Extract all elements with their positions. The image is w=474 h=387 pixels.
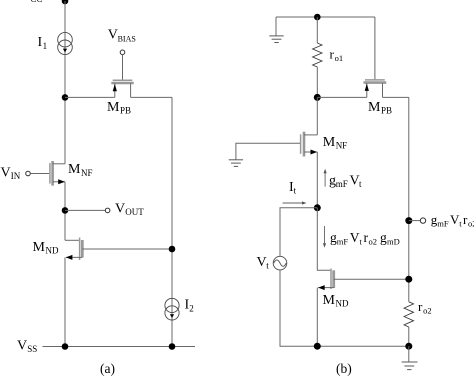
label ro2 (418, 299, 432, 316)
svg-text:ND: ND (336, 299, 349, 309)
nmos MND gate bar (79, 238, 81, 261)
pmos MPB source arrow (113, 84, 117, 91)
svg-text:M: M (323, 293, 336, 308)
svg-text:mF: mF (437, 218, 449, 228)
node top b (314, 14, 321, 21)
wire MNF b gate (236, 143, 300, 159)
node OUT (405, 217, 412, 224)
node VOUT (62, 207, 69, 214)
svg-text:IN: IN (11, 171, 21, 181)
svg-text:1: 1 (43, 41, 48, 51)
svg-text:M: M (33, 240, 46, 255)
label VCC (20, 0, 42, 4)
svg-text:mF: mF (337, 237, 349, 247)
label MND b (323, 293, 349, 309)
annotation arrow gmF Vt up (324, 169, 327, 187)
wire MND drain (82, 248, 172, 250)
annotation arrow gmD down (323, 226, 326, 248)
terminal VOUT (105, 208, 110, 213)
nmos MNF b drain stub (304, 134, 317, 136)
pmos MPB gate bar (113, 79, 133, 81)
nmos MND b gate bar (330, 269, 332, 289)
svg-text:V: V (20, 0, 30, 4)
nmos MNF gate bar (49, 163, 51, 184)
pmos MPB drain leg (130, 84, 132, 98)
node MND drain / right rail (169, 246, 176, 253)
label VOUT (115, 201, 144, 217)
svg-text:PB: PB (120, 106, 131, 116)
svg-text:M: M (107, 100, 120, 115)
source Vt (273, 256, 287, 270)
pmos MPB b channel bar (364, 81, 387, 84)
wire mid left rail (64, 182, 66, 241)
wire out terminal (409, 220, 421, 222)
label VSS (17, 339, 37, 355)
wire MND gate (65, 239, 79, 241)
svg-text:mF: mF (336, 179, 348, 189)
node E bottom center b (314, 343, 321, 350)
svg-text:M: M (68, 162, 81, 177)
node D MND drain / right rail (405, 276, 412, 283)
wire ro2 bottom (408, 327, 410, 346)
ground G1 (269, 36, 283, 43)
node B junction ro1 / MPB source (314, 94, 321, 101)
wire MPB b source (317, 96, 367, 98)
wire MPB source to left rail (65, 96, 115, 98)
svg-text:2: 2 (189, 303, 194, 313)
wire MND b drain (334, 278, 409, 280)
svg-text:V: V (17, 339, 27, 354)
pmos MPB b drain leg (382, 83, 384, 97)
node F bottom right b (405, 343, 412, 350)
wire ro1 bottom (316, 67, 318, 97)
wire center rail b upper (316, 97, 318, 134)
terminal out (420, 218, 425, 223)
label MNF b (323, 135, 348, 151)
ground G2 (229, 160, 243, 167)
nmos MND source stub (66, 256, 82, 258)
svg-text:PB: PB (381, 105, 392, 115)
nmos MNF channel bar (51, 161, 54, 186)
wire MPB b gate (374, 17, 376, 80)
pmos MPB b gate bar (365, 79, 385, 81)
nmos MNF b channel bar (303, 132, 306, 157)
svg-text:g: g (380, 230, 387, 245)
label VBIAS (108, 28, 136, 44)
label I1 (38, 35, 48, 51)
label MPB b (368, 100, 392, 116)
current source I1 (58, 32, 73, 54)
label Vt (257, 255, 270, 271)
ground G1 stub (275, 17, 277, 36)
svg-text:V: V (115, 201, 125, 216)
terminal VIN (26, 171, 31, 176)
wire VOUT (65, 209, 105, 211)
annotation arrow It right (283, 201, 307, 204)
svg-text:BIAS: BIAS (118, 35, 136, 44)
label MND (33, 240, 59, 256)
label It (289, 180, 297, 196)
nmos MND b source arrow (318, 285, 325, 290)
svg-text:OUT: OUT (125, 207, 144, 217)
label gmF Vt ro2 out (431, 212, 474, 228)
wire VBIAS to MPB gate (122, 55, 124, 80)
label VIN (1, 165, 21, 181)
node VCC (62, 0, 69, 4)
resistor ro1 (313, 43, 322, 67)
wire top rail b (276, 16, 375, 18)
nmos MND channel bar (81, 240, 84, 258)
resistor ro2 (404, 302, 413, 327)
nmos MNF source stub (53, 181, 65, 183)
svg-text:V: V (257, 255, 267, 270)
wire right rail b upper (408, 97, 410, 301)
pmos MPB source leg (114, 84, 116, 98)
svg-text:V: V (350, 230, 360, 245)
terminal VBIAS (120, 50, 125, 55)
nmos MND b source stub (318, 287, 333, 289)
wire VSS rail (43, 346, 196, 348)
wire bottom rail b (317, 345, 409, 347)
wire left rail upper (64, 1, 66, 164)
svg-text:ND: ND (46, 246, 59, 256)
pmos MPB channel bar (111, 82, 133, 85)
nmos MNF b gate bar (300, 134, 302, 154)
svg-text:o2: o2 (369, 237, 378, 247)
label gmF Vt (329, 174, 362, 190)
svg-text:CC: CC (30, 0, 42, 4)
current source I2 (165, 298, 179, 320)
wire Vt bottom branch (280, 270, 317, 346)
svg-text:(a): (a) (100, 361, 115, 376)
ground G3 stub (408, 346, 410, 362)
pmos MPB b source arrow (365, 84, 369, 91)
wire ro1 top (316, 17, 318, 43)
svg-text:o2: o2 (468, 218, 474, 228)
nmos MNF b source stub (304, 151, 317, 153)
wire MPB b drain (383, 96, 409, 98)
ground G3 (402, 362, 418, 370)
svg-text:NF: NF (336, 140, 348, 150)
svg-text:M: M (368, 100, 381, 115)
wire MND b gate (317, 208, 330, 270)
svg-text:mD: mD (387, 237, 400, 247)
svg-text:SS: SS (27, 344, 37, 354)
nmos MND b channel bar (332, 270, 335, 288)
svg-text:(b): (b) (336, 361, 352, 376)
label I2 (185, 298, 194, 314)
svg-text:V: V (1, 165, 11, 180)
wire MND b source down (316, 288, 318, 347)
wire MPB drain to right rail (131, 96, 172, 98)
wire Vt top branch (280, 208, 317, 256)
svg-text:V: V (108, 28, 118, 43)
node C test node (314, 204, 321, 211)
wire right rail (a) (171, 97, 173, 346)
nmos MNF drain stub (53, 163, 65, 165)
pmos MPB b source leg (366, 83, 368, 97)
label MNF (68, 162, 93, 178)
nmos MND source arrow (66, 255, 73, 260)
wire VIN to MNF gate (30, 173, 49, 175)
node VSS left (62, 343, 69, 350)
wire MND source down (64, 257, 66, 346)
node A junction I1 / MPB source (62, 94, 69, 101)
svg-text:NF: NF (81, 168, 93, 178)
svg-text:o2: o2 (423, 306, 432, 316)
svg-text:M: M (323, 135, 336, 150)
nmos MNF b source arrow (311, 150, 318, 155)
node VSS right (169, 343, 176, 350)
svg-text:o1: o1 (335, 53, 344, 63)
label gmF Vt ro2 gmD (330, 230, 400, 247)
nmos MNF source arrow (58, 179, 65, 184)
wire center rail b mid (316, 152, 318, 208)
label ro1 (330, 46, 344, 63)
label MPB (107, 100, 131, 116)
